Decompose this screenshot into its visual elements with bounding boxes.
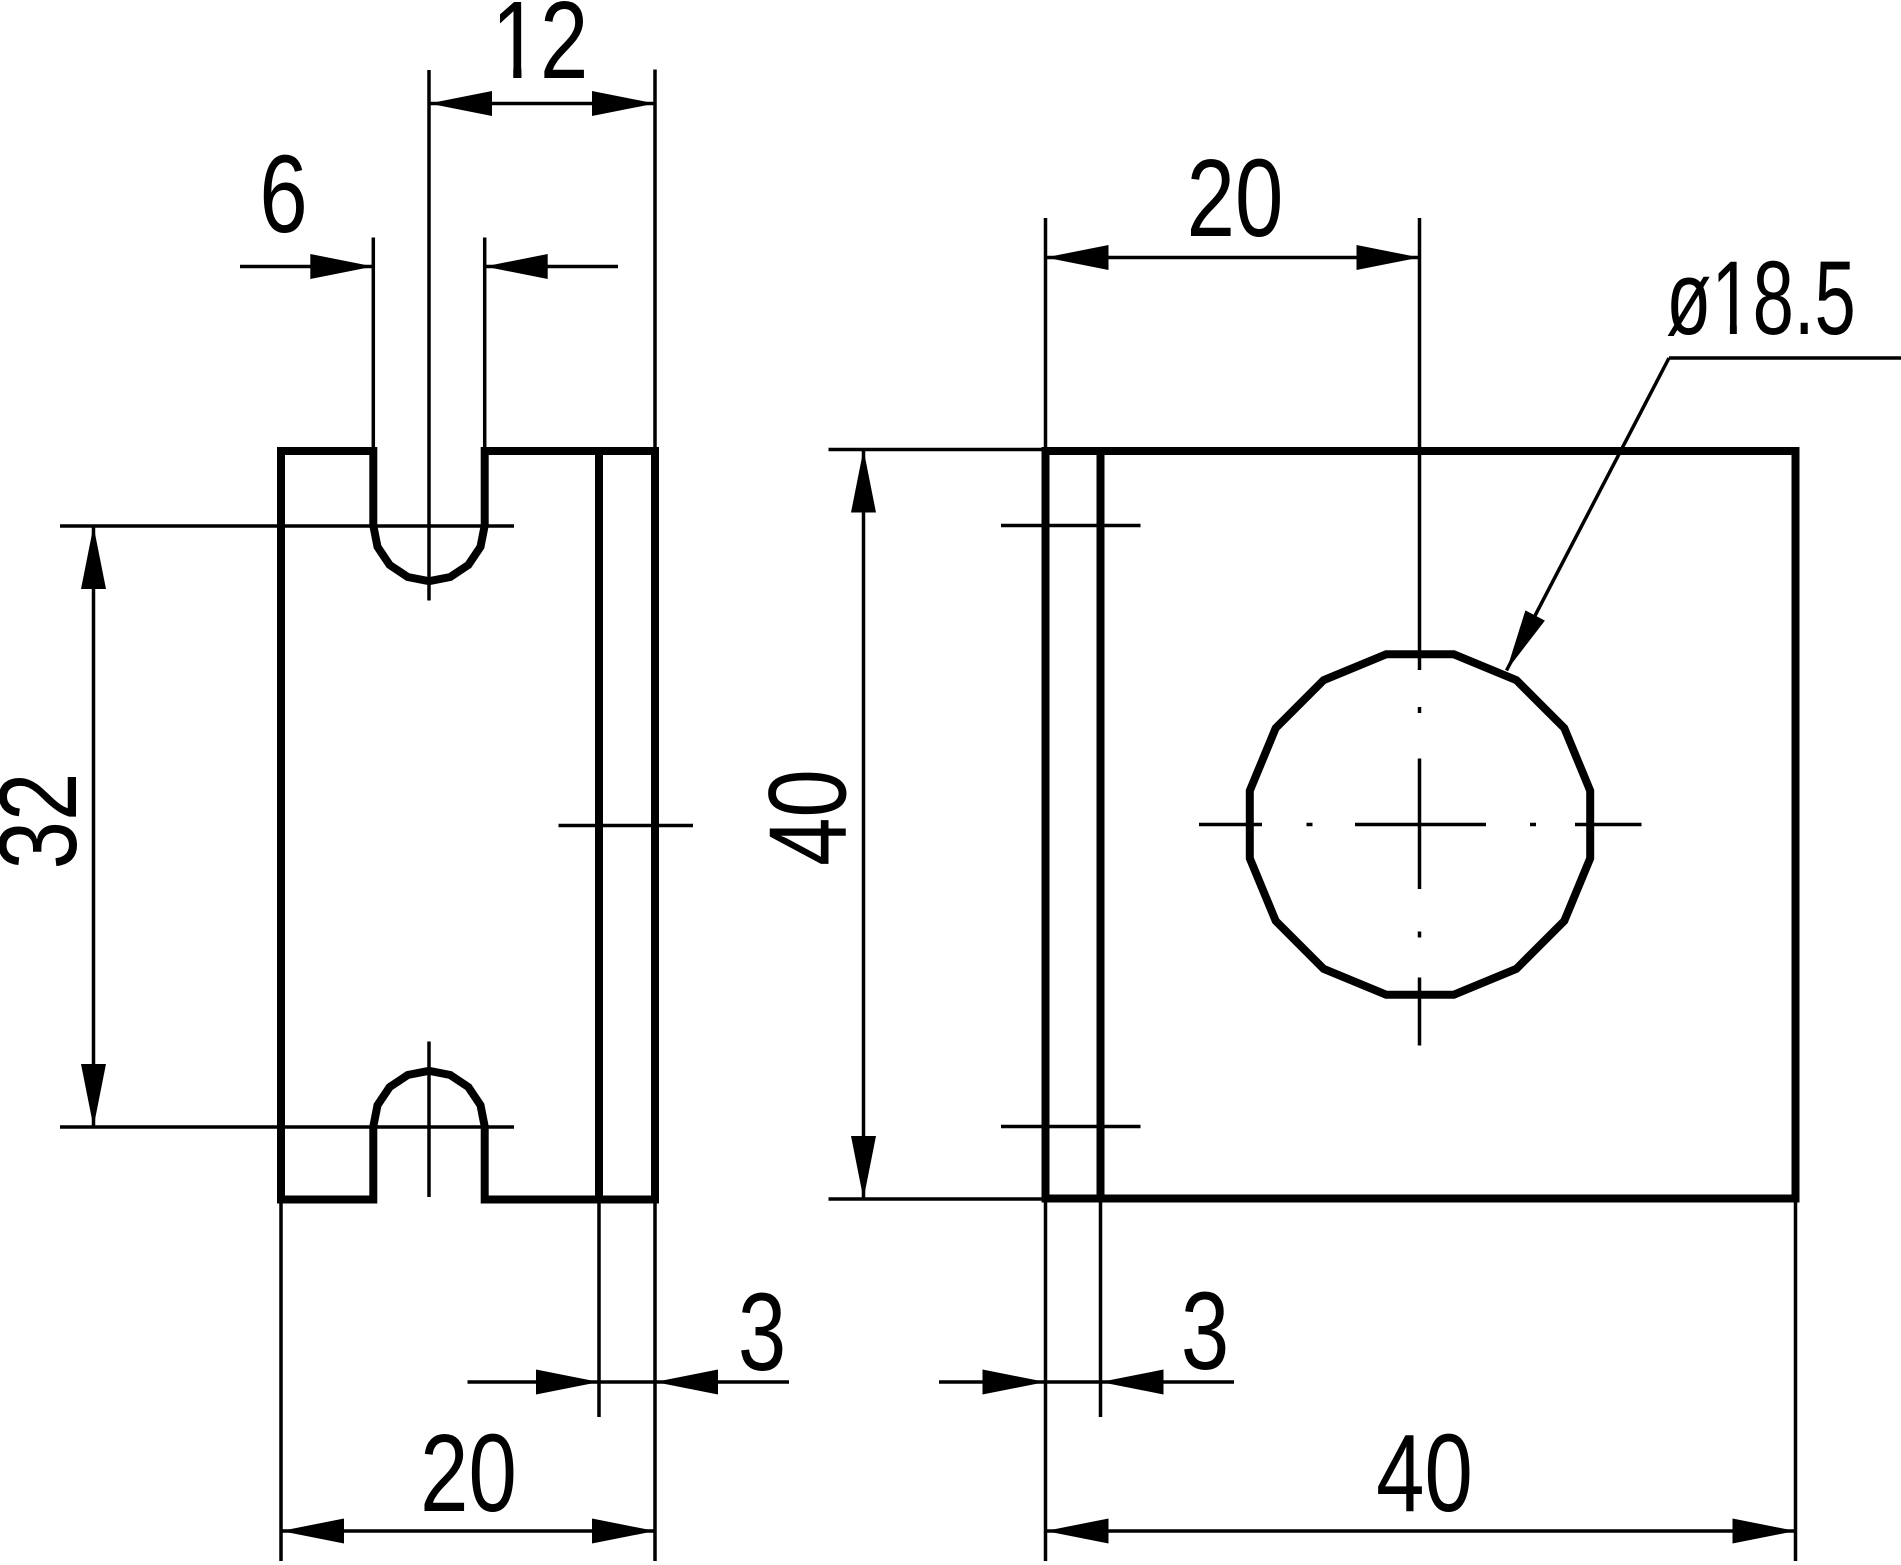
left view: part outline with top and bottom slots — [281, 451, 655, 1200]
centerline bottom slot — [427, 1042, 431, 1198]
arrow leader o18.5 — [1507, 610, 1545, 670]
dimension line 6 right tail — [485, 265, 618, 269]
arrow 20 left view right — [592, 1519, 655, 1544]
svg-text:6: 6 — [259, 133, 307, 256]
hole vertical centerline segment top — [1418, 218, 1422, 670]
svg-text:3: 3 — [738, 1271, 786, 1394]
svg-text:20: 20 — [1187, 137, 1284, 260]
hole horizontal centerline segment left — [1199, 823, 1262, 827]
extension line right edge above (12 dim) — [653, 70, 657, 452]
extension line square inner below (3 dim right) — [1099, 1203, 1103, 1418]
extension line 32 bottom — [60, 1125, 514, 1129]
dimension line 40 right view bottom — [1046, 1529, 1796, 1533]
dimension line 3 right view left tail — [939, 1380, 1101, 1384]
leader line o18.5 horizontal — [1669, 356, 1901, 360]
dimension line 32 — [92, 526, 96, 1127]
text 20 right view — [1187, 137, 1284, 260]
arrow 3 right view (points left) — [1101, 1370, 1164, 1395]
svg-text:32: 32 — [0, 773, 100, 870]
hole horizontal centerline segment right — [1575, 823, 1642, 827]
arrow 20 right view left — [1046, 245, 1109, 270]
extension line left edge below (20 dim) — [279, 1204, 283, 1562]
extension line right edge below (20 dim) — [653, 1204, 657, 1562]
svg-text:12: 12 — [492, 0, 589, 102]
text 3 left view — [738, 1271, 786, 1394]
arrow 6 left (outside, points right) — [310, 254, 373, 279]
hole horizontal centerline dot — [1530, 823, 1536, 827]
arrow 20 left view left — [281, 1519, 344, 1544]
dimension line 20 right view — [1046, 256, 1420, 260]
text 40 right view left (rotated) — [747, 769, 870, 866]
hole circle o18.5 (16-gon) — [1250, 654, 1590, 994]
arrow 3 left view (points right) — [536, 1370, 599, 1395]
centerline left view mid — [559, 824, 694, 828]
dimension line 3 left view right tail — [655, 1380, 789, 1384]
foot masks to make Liberation "1" look like target "1" — [497, 69, 1751, 336]
left view: inner edge line (3 step) — [595, 451, 603, 1200]
hole vertical centerline dot — [1418, 932, 1422, 938]
hole vertical centerline segment bottom — [1418, 978, 1422, 1046]
svg-text:40: 40 — [1376, 1412, 1473, 1535]
dimension line 3 left view — [468, 1380, 656, 1384]
arrow 40 bottom right — [1733, 1519, 1796, 1544]
centerline top slot — [427, 70, 431, 601]
text 6 — [259, 133, 307, 256]
extension line 32 top — [60, 524, 514, 528]
text 40 bottom — [1376, 1412, 1473, 1535]
arrow 32 top — [81, 526, 106, 589]
hole vertical centerline dot — [1418, 707, 1422, 713]
arrow 3 left view (points left) — [655, 1370, 718, 1395]
arrow 3 right view (points right) — [983, 1370, 1046, 1395]
dimension line 40 right view left — [862, 450, 866, 1200]
dimension line 12 — [429, 102, 655, 106]
right view: square plate outline — [1046, 451, 1796, 1199]
extension line inner edge below (3 dim left) — [597, 1204, 601, 1418]
arrow 32 bottom — [81, 1064, 106, 1127]
text 12 — [492, 0, 589, 102]
arrow 40 left top — [851, 450, 876, 513]
arrow 40 left bottom — [851, 1136, 876, 1199]
right view: inner edge line (3 step) — [1097, 451, 1105, 1199]
extension line square right below (40 dim bottom) — [1794, 1203, 1798, 1562]
leader line o18.5 diagonal — [1507, 358, 1670, 671]
dimension line 3 right view right tail — [1101, 1380, 1235, 1384]
svg-text:40: 40 — [747, 769, 870, 866]
text diameter o18.5 — [1666, 240, 1856, 357]
slot centerline tick right view bottom — [1001, 1125, 1141, 1129]
hole horizontal centerline dot — [1307, 823, 1313, 827]
arrow 12 left — [429, 91, 492, 116]
text 20 left view — [420, 1412, 517, 1535]
arrow 12 right — [592, 91, 655, 116]
svg-text:20: 20 — [420, 1412, 517, 1535]
dimension line 20 left view — [281, 1529, 655, 1533]
slot centerline tick right view top — [1001, 524, 1141, 528]
extension line square left below (40 dim bottom) — [1044, 1203, 1048, 1562]
hole vertical centerline segment middle — [1418, 759, 1422, 890]
text 3 right view — [1181, 1270, 1229, 1393]
extension line 40 left top — [829, 448, 1044, 452]
extension line square left above (20 dim right) — [1044, 218, 1048, 451]
extension line 40 left bottom — [829, 1197, 1044, 1201]
arrow 6 right (outside, points left) — [485, 254, 548, 279]
extension line slot right (6 dim) — [483, 238, 487, 452]
extension line slot left (6 dim) — [372, 238, 376, 452]
hole horizontal centerline segment middle — [1355, 823, 1486, 827]
arrow 40 bottom left — [1046, 1519, 1109, 1544]
svg-text:3: 3 — [1181, 1270, 1229, 1393]
text 32 (rotated) — [0, 773, 100, 870]
dimension line 6 left tail — [240, 265, 373, 269]
arrow 20 right view right — [1357, 245, 1420, 270]
svg-text:ø18.5: ø18.5 — [1666, 240, 1856, 357]
